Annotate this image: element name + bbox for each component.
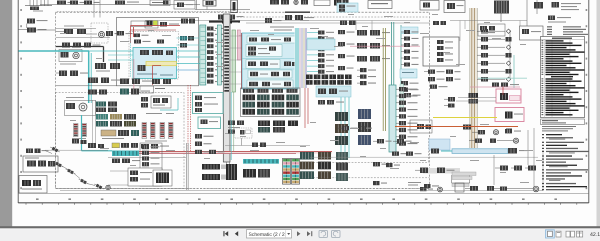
cyan wires in ecm box — [230, 36, 298, 84]
frame bottom border — [18, 202, 589, 204]
red dashed bus pair — [188, 85, 190, 153]
switch cluster 2 — [56, 71, 88, 77]
circle rows right 1 — [472, 129, 521, 135]
teal bus wide — [383, 28, 403, 152]
upper right box — [520, 26, 544, 40]
top drops mid — [356, 21, 372, 31]
cyan striped row lower — [243, 159, 279, 164]
right top drops — [460, 21, 520, 42]
dual circle symbol — [106, 185, 110, 189]
ecm strip 2 — [217, 25, 221, 85]
cab box rows — [137, 50, 173, 76]
legend pre rows — [547, 26, 588, 35]
block cluster lower mid — [243, 169, 270, 178]
ecm connector strip — [200, 25, 206, 85]
harness box cells top right — [181, 19, 195, 24]
harness box title cell — [131, 21, 158, 27]
teal risers — [392, 22, 402, 96]
bottom left margin cluster — [26, 149, 49, 154]
top wire — [40, 4, 200, 6]
rows m4 — [401, 81, 421, 97]
pink strip — [237, 30, 272, 60]
red trunk lower — [118, 151, 332, 153]
extra cell row — [117, 31, 133, 36]
right riser — [509, 30, 511, 78]
orange wire right — [395, 126, 518, 128]
top transformer symbol — [494, 1, 509, 23]
top cluster under dash 3 — [265, 15, 314, 23]
cyan laterals left — [108, 55, 133, 60]
long gray feeder — [56, 85, 117, 87]
dual circle symbol — [106, 185, 110, 189]
small cells right top — [433, 21, 446, 25]
frame right border — [588, 0, 590, 203]
cells below elbow — [88, 63, 120, 83]
pale cyan cab box — [133, 48, 177, 79]
toolbar background — [0, 228, 600, 241]
cells row 340x128 — [338, 126, 372, 130]
top cluster c — [150, 0, 170, 6]
colored cluster rows left — [112, 143, 138, 148]
lower rows on red trunk — [195, 150, 225, 154]
switch cluster w circle — [59, 50, 82, 65]
teal corner wire mid — [160, 98, 178, 110]
red risers mid — [305, 88, 308, 128]
harness box cyan cells — [177, 36, 200, 48]
view two-up icon — [566, 231, 575, 237]
circle rows right 2 — [469, 138, 519, 143]
svg-text:Schematic (2 / 2: Schematic (2 / 2 — [249, 232, 285, 238]
striped connector quad — [142, 123, 173, 142]
dark block pair lower — [202, 164, 237, 180]
bottom left box 1 — [23, 156, 58, 172]
top cluster under dash 2 — [218, 15, 244, 20]
left margin top pins — [25, 0, 52, 12]
right motor row — [465, 186, 539, 192]
top box h — [368, 1, 392, 9]
light blue fill corner — [429, 139, 450, 150]
nav next button — [297, 231, 300, 236]
top box i — [420, 1, 439, 11]
legend paragraph — [542, 126, 576, 131]
cells left of pink box — [444, 97, 455, 108]
right lower box — [455, 183, 464, 192]
connector row below grid — [258, 121, 298, 133]
fuse cluster mid — [225, 143, 310, 148]
dark block pair lower — [202, 164, 237, 180]
cluster row m1 — [357, 30, 390, 36]
cyan risers center — [341, 86, 349, 158]
long bottom wire — [60, 190, 543, 192]
cells below cab box — [120, 79, 171, 85]
diagonal wires lower left — [45, 151, 95, 186]
label sprinkles — [60, 14, 542, 183]
dashed box 234 — [225, 128, 252, 146]
tiny top marks — [163, 1, 169, 5]
cells left of teal row — [72, 139, 87, 144]
engine strip column — [223, 14, 230, 162]
teal box upper — [193, 93, 224, 114]
striped columns lower right — [300, 152, 331, 179]
box B rows — [134, 34, 164, 44]
cells beside teal box — [228, 121, 244, 134]
cyan drop mid — [230, 92, 232, 160]
rows m5 — [424, 70, 461, 89]
nav first-page button — [225, 231, 228, 236]
top link wires — [145, 21, 430, 24]
pink box E — [495, 108, 524, 122]
frame ruler ticks — [26, 203, 577, 205]
engine strip drops — [227, 92, 234, 164]
right viewer gutter — [597, 0, 600, 227]
tan bus pair — [470, 8, 478, 148]
top dark cluster 334 — [334, 0, 349, 6]
cab harness box — [56, 12, 430, 188]
view scrolling icon active — [546, 230, 555, 238]
top outline box 314 — [314, 0, 330, 6]
striped columns lower right 2 — [336, 152, 348, 181]
pale box m1 — [401, 27, 418, 34]
dashed line lower — [310, 177, 430, 179]
frame left border — [17, 0, 19, 203]
row under harness box — [88, 89, 150, 95]
cells row 375x139 — [373, 139, 412, 143]
harness box red loop — [131, 26, 181, 44]
left viewer gutter — [0, 0, 12, 227]
multicolor stack column — [283, 159, 300, 185]
label row mid — [146, 113, 174, 114]
connector grid center — [241, 88, 301, 117]
cells row 373x162 — [373, 162, 400, 167]
cab yellow band — [146, 62, 177, 66]
nav last button — [307, 231, 310, 236]
red line in ecm box — [240, 33, 242, 89]
top right small boxes — [534, 2, 581, 10]
toolbar separator — [0, 226, 600, 228]
heavy wire segment — [285, 11, 310, 13]
cyan trunk — [19, 51, 134, 103]
gray wires into pink box — [456, 98, 496, 102]
colored grid mid — [96, 114, 136, 127]
left zone letters — [20, 9, 22, 189]
component dashed box B — [129, 32, 179, 80]
light cyan box — [307, 39, 335, 50]
top right link wires — [450, 21, 527, 30]
small cells above teal row — [88, 143, 104, 148]
ecm pin rows — [207, 27, 224, 84]
view single page icon — [556, 231, 561, 237]
pre-legend cluster — [548, 16, 571, 23]
cab pink wires — [134, 59, 161, 93]
teal descent — [82, 100, 113, 151]
right rows mid — [396, 87, 418, 146]
chassis dashed box — [310, 161, 429, 163]
angled plug symbols — [49, 146, 104, 191]
teal vertical right — [513, 55, 515, 88]
upper-left wires — [56, 29, 110, 38]
pale blue band — [431, 148, 527, 154]
right vertical drop — [542, 150, 544, 191]
legend small table — [541, 119, 585, 125]
pink top wire — [470, 87, 520, 95]
mid right box — [410, 120, 432, 133]
ecm box inner white 1 — [247, 36, 295, 43]
engine box top dashed — [224, 16, 429, 18]
feeder wire lower left — [45, 149, 108, 151]
white box rows lower — [128, 168, 162, 186]
teal box lower — [198, 117, 221, 129]
legend table — [541, 37, 585, 118]
left margin cluster 2 — [27, 28, 56, 33]
left margin component D08 — [18, 19, 47, 30]
gray pair lower — [186, 143, 188, 190]
cells below cyan box row — [318, 100, 344, 105]
right vertical wires lower — [494, 128, 534, 188]
mid tan cluster — [101, 130, 139, 139]
cells under second dash — [340, 21, 356, 26]
cluster on orange wire — [463, 125, 471, 130]
teal horizontal right — [478, 78, 527, 87]
red riser — [133, 27, 135, 37]
pale cyan top box right — [337, 3, 358, 12]
top box d — [203, 0, 216, 6]
dashed box around lamp circle — [91, 23, 108, 43]
striped columns lower right 2 — [336, 152, 348, 181]
top right wires — [527, 0, 537, 26]
top cluster under dash 1 — [145, 21, 179, 28]
bold bundle over ecm — [209, 20, 240, 24]
right zone letters — [586, 9, 588, 189]
pale cyan ecm box — [242, 33, 298, 89]
top box j — [444, 1, 465, 13]
bottom left box 2 — [19, 176, 47, 194]
cyan dotted riser — [130, 38, 132, 77]
connector farm dark — [306, 75, 352, 85]
pink box D — [496, 89, 521, 103]
striped columns lower right — [300, 152, 331, 179]
top cluster b — [115, 1, 139, 5]
rotate cw icon — [332, 230, 341, 237]
ecm box inner white 3 — [246, 60, 297, 69]
cells below teal row — [112, 159, 140, 164]
lower right text rows — [408, 182, 439, 188]
upper mid cyan box row — [316, 86, 351, 97]
harness main box — [117, 18, 199, 86]
boxed cluster right top — [478, 24, 505, 36]
top cluster a — [57, 1, 100, 5]
wiper cluster teal — [96, 102, 117, 113]
green strip — [232, 30, 236, 92]
right rows with diamonds — [477, 29, 512, 82]
svg-text:42.1: 42.1 — [590, 232, 600, 238]
gray bars lower left right — [452, 172, 476, 187]
top wires near ecm — [195, 0, 250, 10]
cab inner dashed box — [56, 93, 185, 189]
ecm box inner white 4 — [248, 70, 292, 78]
bundle branch rows — [307, 31, 334, 74]
lower right rows — [415, 168, 470, 184]
striped block col A — [335, 112, 348, 145]
dense cluster box — [153, 170, 172, 186]
pale box m2 — [400, 69, 417, 78]
dark feeder elbow — [56, 47, 104, 63]
cyan striped row lower — [243, 159, 279, 164]
cluster row m2 — [357, 43, 390, 49]
bottom-left long wires — [108, 158, 186, 186]
cluster row m3 — [357, 56, 390, 62]
mid rows 336 — [338, 30, 355, 70]
bottom scatter cells — [373, 181, 442, 192]
boxed rows column — [140, 143, 162, 186]
page dropdown — [247, 230, 292, 238]
multicolor stack column — [283, 159, 300, 185]
flood lamp circle cluster — [65, 97, 96, 116]
ecm box inner white 5 — [247, 80, 293, 88]
rows x404 — [401, 30, 419, 67]
relay cluster row1 — [56, 26, 123, 38]
top cell band with circle — [270, 0, 308, 5]
nav prev button — [235, 231, 238, 236]
view two-up cover icon — [577, 231, 583, 237]
long thin wire y157 — [310, 156, 538, 158]
harness bundle vertical — [295, 28, 308, 88]
top small box 174 — [174, 1, 195, 10]
block cluster lower mid — [243, 169, 270, 178]
rotate ccw icon — [319, 230, 328, 237]
frame ruler line — [18, 192, 589, 194]
striped connector pair left — [72, 124, 87, 140]
small cluster below teal — [195, 134, 214, 146]
left box mid — [140, 86, 165, 93]
ecm box labels top — [270, 27, 294, 31]
pink wire m — [350, 45, 420, 47]
cells below quad — [141, 144, 169, 149]
bottom dashed border — [56, 188, 430, 190]
bundle cells — [469, 93, 479, 104]
chassis box rows — [392, 152, 422, 156]
box cluster mid — [141, 96, 171, 108]
mid row right — [495, 166, 536, 171]
striped block col B — [358, 109, 371, 145]
notes rows — [542, 134, 589, 190]
teal striped row — [112, 151, 139, 157]
bottom zone numbers — [36, 198, 557, 200]
rows x360 lower — [357, 68, 376, 85]
box B cyan outputs — [177, 51, 201, 70]
gray pair lower — [186, 143, 188, 190]
ecm box inner white 2 — [246, 45, 282, 57]
relay cluster row2 — [62, 43, 101, 48]
monitor box — [423, 37, 459, 66]
top box e — [231, 0, 238, 13]
top dashed feeder — [57, 11, 231, 13]
top feeder verticals — [94, 0, 100, 18]
yellow wire right — [433, 117, 497, 119]
